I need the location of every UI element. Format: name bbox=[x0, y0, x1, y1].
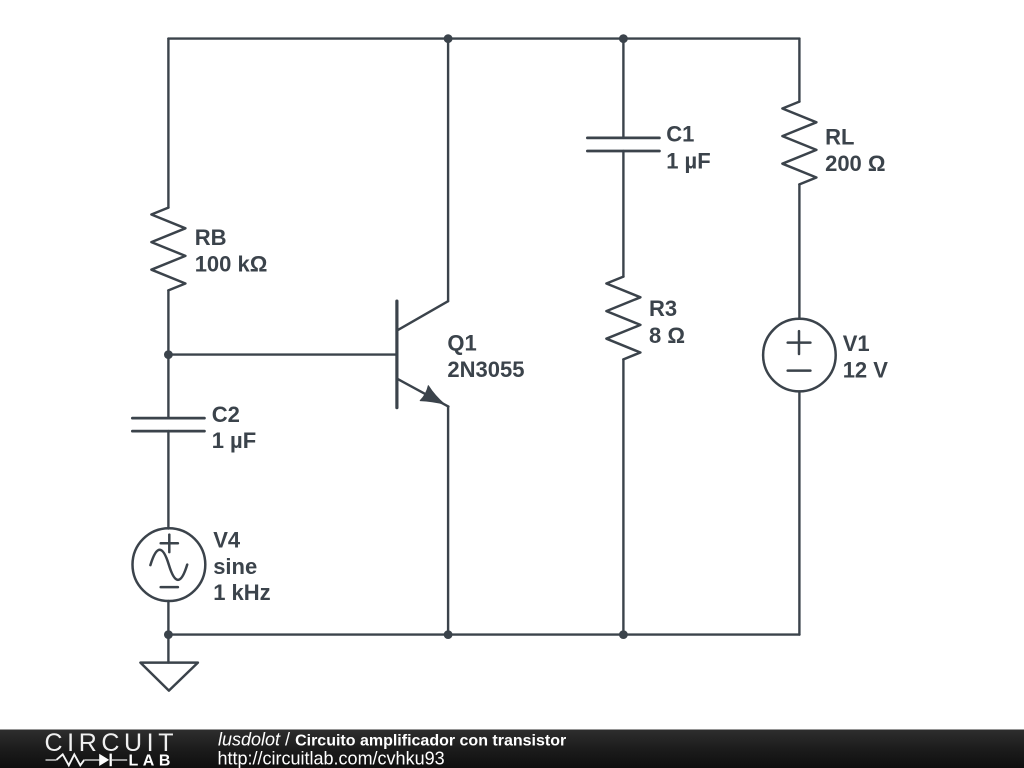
ground bbox=[140, 663, 198, 691]
label R3 value bbox=[649, 296, 685, 348]
svg-text:V4: V4 bbox=[213, 528, 241, 553]
wire top to RL bbox=[798, 39, 800, 102]
svg-text:R3: R3 bbox=[649, 296, 677, 321]
label V4 value bbox=[213, 528, 270, 605]
capacitor C1 bbox=[587, 138, 659, 151]
wire C1 to R3 bbox=[622, 151, 624, 277]
svg-text:lusdolot / Circuito amplificad: lusdolot / Circuito amplificador con tra… bbox=[218, 730, 566, 750]
wire V1 to bottom rail bbox=[798, 391, 800, 634]
node C1 top junction dot bbox=[619, 34, 628, 43]
wire left branch top bbox=[167, 39, 169, 208]
svg-text:LAB: LAB bbox=[129, 753, 175, 768]
wire R3 to bottom rail bbox=[622, 359, 624, 634]
node R3 bottom junction dot bbox=[619, 630, 628, 639]
footer title text bbox=[218, 730, 567, 768]
wire C2 to V4 bbox=[167, 431, 169, 528]
node bottom-left junction dot bbox=[164, 630, 173, 639]
svg-text:RL: RL bbox=[825, 125, 854, 150]
label RB value bbox=[195, 225, 268, 277]
wire bottom rail bbox=[168, 633, 799, 635]
svg-text:Q1: Q1 bbox=[447, 331, 476, 356]
svg-text:8 Ω: 8 Ω bbox=[649, 323, 685, 348]
logo resistor-diode art bbox=[46, 754, 128, 767]
svg-text:C1: C1 bbox=[666, 122, 694, 147]
svg-text:100 kΩ: 100 kΩ bbox=[195, 252, 268, 277]
svg-text:200 Ω: 200 Ω bbox=[825, 151, 885, 176]
label C2 value bbox=[212, 402, 256, 453]
wire RL to V1 bbox=[798, 184, 800, 318]
wire top rail bbox=[168, 37, 799, 39]
svg-text:1 µF: 1 µF bbox=[666, 148, 710, 173]
svg-text:RB: RB bbox=[195, 225, 227, 250]
label V1 value bbox=[843, 331, 889, 383]
svg-text:http://circuitlab.com/cvhku93: http://circuitlab.com/cvhku93 bbox=[218, 749, 445, 768]
node collector top junction dot bbox=[444, 34, 453, 43]
source V1 bbox=[763, 319, 836, 392]
node B junction dot bbox=[164, 350, 173, 359]
wire base bbox=[168, 353, 395, 355]
node emitter bottom junction dot bbox=[444, 630, 453, 639]
svg-text:V1: V1 bbox=[843, 331, 870, 356]
svg-text:1 kHz: 1 kHz bbox=[213, 580, 270, 605]
label RL value bbox=[825, 125, 885, 176]
footer bar bbox=[0, 730, 1024, 768]
wire emitter bbox=[447, 406, 449, 634]
logo CircuitLab wordmark bbox=[45, 729, 179, 768]
resistor RB bbox=[151, 208, 185, 291]
label C1 value bbox=[666, 122, 710, 174]
wire top to C1 bbox=[622, 39, 624, 138]
svg-text:C2: C2 bbox=[212, 402, 240, 427]
svg-text:12 V: 12 V bbox=[843, 357, 889, 382]
transistor Q1 bbox=[397, 301, 449, 408]
svg-text:sine: sine bbox=[213, 554, 257, 579]
resistor R3 bbox=[606, 277, 640, 360]
svg-text:2N3055: 2N3055 bbox=[447, 357, 524, 382]
capacitor C2 bbox=[132, 418, 204, 431]
label Q1 value bbox=[447, 331, 524, 382]
wire RB to node B bbox=[167, 290, 169, 417]
wire V4 to bottom rail bbox=[167, 601, 169, 635]
wire collector bbox=[447, 39, 449, 302]
resistor RL bbox=[782, 102, 816, 185]
wire ground stub bbox=[167, 635, 169, 663]
source V4 bbox=[133, 528, 206, 601]
svg-text:1 µF: 1 µF bbox=[212, 428, 256, 453]
